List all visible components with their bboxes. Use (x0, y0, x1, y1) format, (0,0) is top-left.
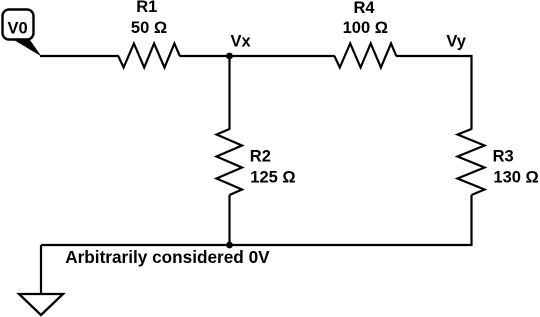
svg-text:R1: R1 (136, 0, 157, 16)
resistor R2 (217, 129, 243, 195)
wire from node Vx down to R2 (228, 56, 230, 130)
resistor R4 (334, 44, 396, 68)
voltage source callout box V0 (3, 10, 42, 57)
bottom rail junction dot at R2 (226, 242, 233, 249)
ground (19, 294, 63, 315)
wire from V0 to R1 (40, 55, 119, 57)
svg-text:50 Ω: 50 Ω (131, 19, 167, 37)
svg-text:R2: R2 (250, 147, 271, 165)
svg-text:Vx: Vx (231, 32, 252, 50)
bottom rail wire (0V reference net) (41, 244, 472, 246)
wire from R2 down to bottom rail (228, 195, 230, 245)
resistor R3 (458, 129, 485, 195)
svg-text:V0: V0 (8, 19, 28, 37)
wire from rail down to ground (40, 245, 42, 294)
node Vx junction dot (226, 53, 233, 60)
svg-text:100 Ω: 100 Ω (343, 19, 388, 37)
wire from R3 down to bottom rail (470, 195, 472, 246)
resistor R1 (118, 44, 180, 68)
svg-text:Vy: Vy (446, 33, 466, 51)
svg-text:R3: R3 (493, 147, 514, 165)
svg-text:130 Ω: 130 Ω (493, 169, 538, 187)
wire from R4 to node Vy corner down to R3 (396, 56, 472, 130)
svg-text:Arbitrarily considered 0V: Arbitrarily considered 0V (65, 247, 270, 267)
svg-text:R4: R4 (353, 0, 375, 17)
wire from R1 through node Vx to R4 (180, 55, 335, 57)
svg-text:125 Ω: 125 Ω (250, 169, 295, 187)
